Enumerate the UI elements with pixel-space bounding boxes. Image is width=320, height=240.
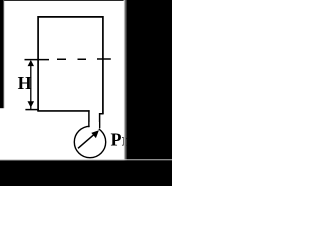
dashed liquid level line — [25, 58, 111, 61]
svg-text:H: H — [18, 73, 32, 93]
tank bottom edge — [37, 110, 89, 112]
dimension line H shaft — [30, 61, 32, 109]
scan border: left black column — [0, 0, 3, 108]
scan border: bottom black band — [0, 161, 172, 186]
gauge needle shaft — [78, 134, 95, 148]
scan border: right black band — [127, 0, 172, 186]
pressure gauge circle — [74, 126, 105, 157]
gauge needle arrowhead — [91, 130, 99, 138]
dimension arrowhead down — [28, 101, 35, 107]
pipe opening into gauge (white gap in circle top) — [90, 122, 99, 129]
scan border: top edge line — [0, 0, 124, 2]
pipe left side — [88, 110, 90, 127]
dimension arrowhead up — [28, 60, 34, 66]
dimension bottom end bar — [25, 109, 39, 111]
tank vessel outline — [38, 17, 103, 114]
pipe right side (jog from tank wall) — [100, 114, 104, 129]
